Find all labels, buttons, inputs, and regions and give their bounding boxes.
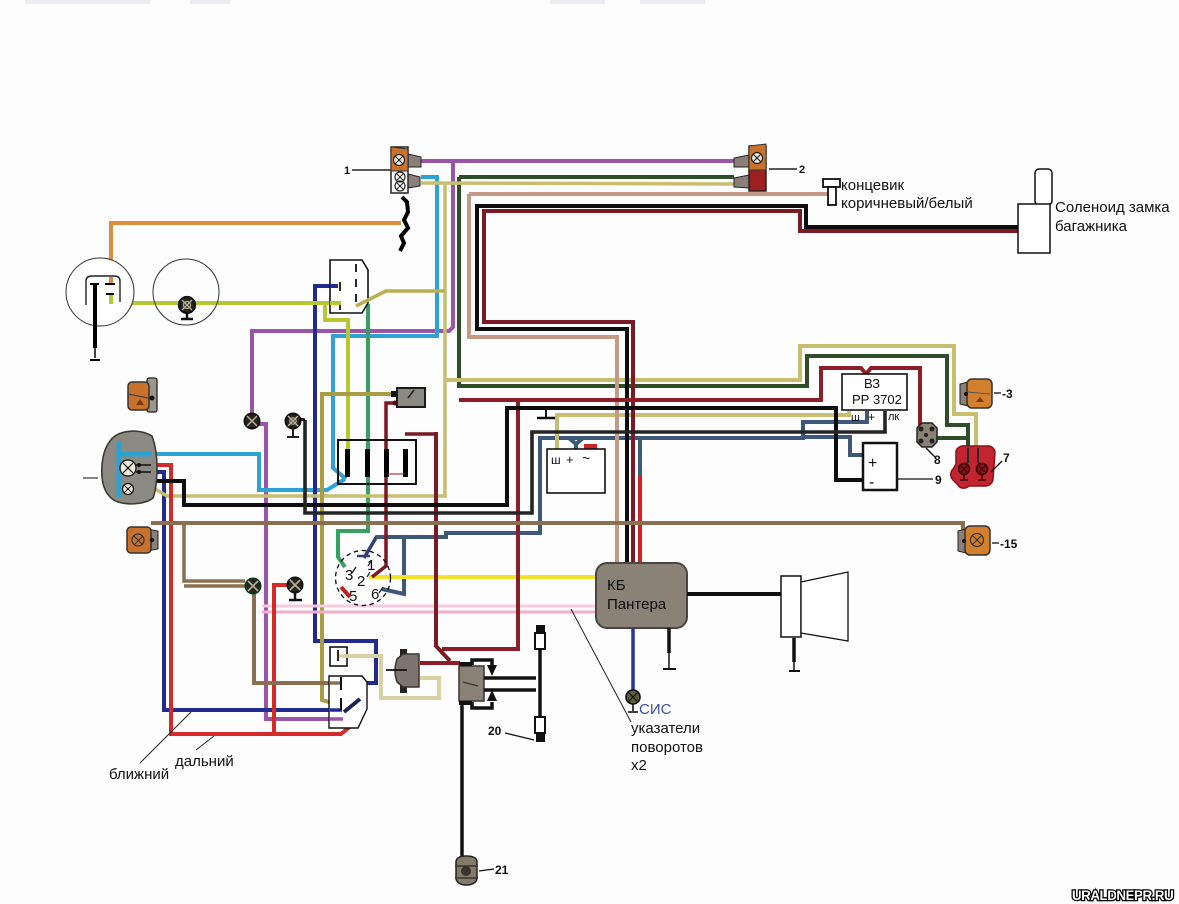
- svg-text:+: +: [566, 452, 574, 467]
- svg-text:х2: х2: [631, 757, 647, 774]
- svg-text:КБ: КБ: [607, 577, 626, 594]
- svg-text:20: 20: [488, 724, 502, 738]
- svg-text:3: 3: [345, 567, 353, 584]
- svg-text:ближний: ближний: [109, 766, 169, 783]
- svg-text:СИС: СИС: [639, 701, 672, 718]
- svg-text:+: +: [868, 410, 875, 424]
- svg-text:6: 6: [371, 586, 379, 603]
- svg-text:РР 3702: РР 3702: [852, 392, 902, 407]
- svg-text:-: -: [869, 474, 874, 491]
- svg-text:7: 7: [1003, 451, 1010, 465]
- svg-text:2: 2: [799, 164, 805, 176]
- svg-text:Пантера: Пантера: [607, 596, 667, 613]
- svg-text:21: 21: [495, 863, 509, 877]
- svg-text:концевик: концевик: [841, 177, 904, 194]
- svg-text:ш: ш: [851, 412, 860, 424]
- svg-text:Соленоид замка: Соленоид замка: [1055, 199, 1170, 216]
- svg-text:ш: ш: [551, 453, 561, 467]
- svg-text:2: 2: [357, 573, 365, 590]
- svg-text:-3: -3: [1002, 387, 1013, 401]
- svg-text:8: 8: [934, 453, 941, 467]
- svg-text:URALDNEPR.RU: URALDNEPR.RU: [1072, 888, 1174, 903]
- svg-text:-15: -15: [1000, 537, 1018, 551]
- svg-text:9: 9: [935, 473, 942, 487]
- svg-text:лк: лк: [888, 411, 899, 423]
- svg-text:коричневый/белый: коричневый/белый: [841, 195, 973, 212]
- svg-text:+: +: [868, 455, 877, 472]
- svg-text:указатели: указатели: [631, 720, 700, 737]
- svg-text:дальний: дальний: [175, 753, 234, 770]
- svg-text:ВЗ: ВЗ: [864, 376, 880, 391]
- svg-text:поворотов: поворотов: [631, 739, 703, 756]
- svg-text:~: ~: [582, 450, 590, 466]
- svg-text:1: 1: [344, 165, 350, 177]
- svg-text:багажника: багажника: [1055, 218, 1128, 235]
